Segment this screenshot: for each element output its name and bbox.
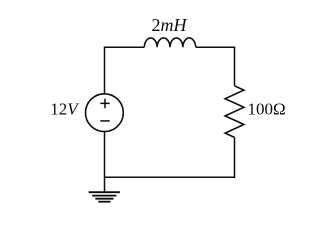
minus sign inside source xyxy=(100,120,109,122)
inductor L (2mH) on top wire xyxy=(144,38,195,47)
wire: inductor right lead to top-right corner down to resistor top xyxy=(196,47,235,86)
wire: voltage source bottom to junction and down to ground xyxy=(104,132,106,193)
voltage source V (12V) circle xyxy=(86,94,124,132)
plus sign inside source xyxy=(100,99,109,108)
wire: voltage source top to top-left corner and to inductor left lead xyxy=(105,47,145,94)
ground symbol xyxy=(89,192,120,202)
wire: resistor bottom to bottom-right corner and along bottom to ground junction xyxy=(105,137,235,177)
resistor R (100Ω) on right wire xyxy=(225,86,244,138)
svg-text:100Ω: 100Ω xyxy=(248,100,286,119)
svg-text:12V: 12V xyxy=(50,100,80,119)
svg-text:2mH: 2mH xyxy=(152,15,188,35)
